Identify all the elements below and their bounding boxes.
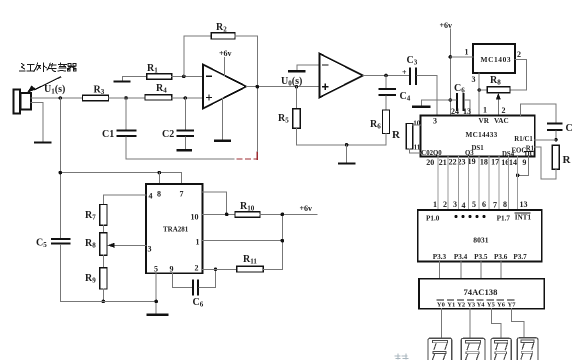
svg-text:VR: VR	[479, 117, 490, 125]
svg-text:P1.7: P1.7	[497, 215, 511, 223]
svg-text:Y5: Y5	[487, 301, 496, 308]
node at - input	[182, 75, 186, 79]
svg-text:8031: 8031	[473, 235, 488, 244]
svg-text:2: 2	[195, 264, 199, 273]
op-amp U2	[319, 54, 363, 98]
wire R3 to node A	[109, 97, 146, 99]
bottom rail wire	[60, 300, 156, 302]
wiper arrow from pin 3	[112, 244, 146, 246]
bottom wire R5 to R6	[297, 144, 387, 146]
wire R1 to opamp -	[172, 75, 203, 77]
infrared sensor body	[14, 90, 21, 114]
svg-text:21: 21	[439, 158, 447, 167]
svg-text:+: +	[402, 68, 407, 77]
svg-text:R: R	[563, 154, 572, 166]
svg-text:18: 18	[480, 157, 488, 166]
bias bar at R1 left	[123, 76, 148, 80]
left rail wire down	[59, 98, 61, 238]
bias bar (analog ground)	[421, 100, 423, 106]
op-amp U1	[203, 65, 246, 109]
faint watermark text	[395, 354, 408, 359]
svg-text:P3.6: P3.6	[494, 253, 508, 261]
svg-text:6: 6	[482, 200, 486, 209]
decoder 74AC138	[419, 279, 544, 309]
ground bar under C2	[178, 149, 192, 151]
svg-text:Y6: Y6	[497, 301, 506, 308]
wire sensor to R3	[31, 97, 83, 99]
wire R2 to output	[235, 36, 257, 87]
output node 2	[384, 74, 388, 78]
wire opamp1 output to opamp2 +	[246, 86, 319, 88]
bus wires MC14433 to 8031	[438, 156, 517, 210]
wire pin 4 from R7 top	[103, 195, 146, 205]
loop wire top right of TRA281	[203, 192, 227, 214]
clock pin wire to C	[520, 104, 556, 123]
display DS2	[461, 338, 485, 360]
svg-text:R: R	[392, 129, 401, 141]
node at U1	[59, 96, 63, 100]
svg-text:3: 3	[453, 200, 457, 209]
svg-text:C: C	[566, 123, 573, 134]
wire pin 2 to R11	[203, 268, 237, 270]
svg-text:17: 17	[491, 158, 499, 167]
svg-text:Y7: Y7	[508, 301, 517, 308]
svg-text:P1.0: P1.0	[426, 214, 440, 222]
wire Y3 to display 2	[469, 309, 471, 339]
label 红外传感器 (infrared sensor, drawn strokes)	[20, 63, 77, 72]
R1/C1 pin wire	[535, 139, 557, 141]
svg-text:14: 14	[509, 158, 517, 167]
pin 1 wire MC1403	[450, 56, 473, 58]
svg-text:5: 5	[472, 200, 476, 209]
svg-text:3: 3	[472, 75, 476, 84]
wire R10 to +6v	[260, 213, 317, 215]
wire R11 to +6v rail	[263, 214, 282, 269]
svg-text:1: 1	[433, 200, 437, 209]
svg-text:1: 1	[196, 238, 200, 247]
svg-text:8: 8	[503, 200, 507, 209]
bias bar at opamp2 - input	[297, 65, 319, 70]
output node	[255, 85, 259, 89]
display DS4	[517, 338, 538, 360]
svg-text:+6v: +6v	[219, 49, 232, 58]
svg-text:Y2: Y2	[457, 301, 465, 308]
svg-text:10: 10	[191, 213, 199, 222]
svg-text:16: 16	[501, 158, 509, 167]
wire pin 10	[203, 213, 235, 215]
svg-text:11: 11	[414, 144, 421, 152]
svg-text:Y0: Y0	[437, 301, 445, 308]
svg-text:4: 4	[149, 192, 153, 201]
svg-text:MC1403: MC1403	[481, 55, 512, 64]
svg-text:INT1: INT1	[515, 213, 532, 221]
svg-text:+6v: +6v	[300, 204, 313, 213]
svg-text:P3.4: P3.4	[454, 253, 468, 261]
microcontroller 8031	[418, 210, 542, 262]
wire pin 8	[158, 173, 160, 184]
wire Y0 to display 1	[441, 309, 443, 338]
svg-text:U0(s): U0(s)	[281, 76, 302, 88]
svg-text:C02Q0: C02Q0	[421, 150, 442, 157]
svg-text:TRA281: TRA281	[163, 226, 189, 234]
wire Y5 to display 3	[491, 309, 501, 338]
wire opamp2 output	[363, 75, 410, 77]
wire C3 to pin3 of MC14433	[417, 76, 437, 116]
DU wire loop to EOC line	[518, 156, 529, 175]
svg-text:3: 3	[433, 117, 437, 126]
ground bar under sensor	[35, 142, 51, 144]
wire pin 5 to ground	[155, 273, 157, 314]
svg-text:Y1: Y1	[447, 301, 455, 308]
svg-text:9: 9	[522, 158, 526, 167]
svg-text:C2: C2	[162, 129, 174, 140]
ground under opamp2	[346, 145, 348, 163]
node A	[124, 96, 128, 100]
svg-text:2: 2	[443, 200, 447, 209]
svg-text:7: 7	[493, 201, 497, 210]
wiper arrow to VAC	[497, 97, 499, 115]
svg-text:20: 20	[426, 158, 434, 167]
svg-text:P3.3: P3.3	[433, 253, 447, 261]
feedback vertical to output node	[256, 87, 258, 152]
red watermark dashes on feedback wire	[237, 158, 257, 160]
wire pin 9 to C6	[172, 273, 192, 287]
MC1403 U3	[473, 44, 515, 73]
node B	[184, 96, 188, 100]
svg-text:7: 7	[180, 190, 184, 199]
svg-text:VAC: VAC	[494, 117, 509, 125]
wire bias bar to C6 and pin13	[422, 99, 456, 101]
ic TRA281	[146, 184, 203, 273]
svg-text:1: 1	[465, 48, 469, 57]
svg-text:8: 8	[157, 190, 161, 199]
svg-text:4: 4	[462, 201, 466, 210]
wire R7-R8	[102, 225, 104, 233]
svg-text:Y3: Y3	[467, 301, 476, 308]
wire R9 to bottom rail	[102, 289, 104, 301]
svg-text:9: 9	[170, 265, 174, 274]
svg-text:Y4: Y4	[477, 301, 486, 308]
wires 8031 to 74AC138	[440, 262, 501, 279]
arrow from label to sensor	[35, 77, 61, 90]
svg-text:P3.7: P3.7	[513, 253, 527, 261]
MC14433 bottom pin numbers	[426, 157, 526, 167]
display DS3	[491, 338, 511, 360]
svg-text:3: 3	[148, 245, 152, 254]
svg-text:2: 2	[517, 50, 521, 59]
svg-text:5: 5	[154, 265, 158, 274]
node at U0	[295, 85, 299, 89]
ground bar under pin 5	[148, 314, 168, 316]
pin 2 wire MC1403	[510, 59, 527, 90]
svg-text:U1(s): U1(s)	[44, 84, 65, 96]
svg-text:R1/C1: R1/C1	[514, 136, 533, 143]
wire pin 1	[203, 240, 283, 242]
pin 3 wire MC1403 to VR	[478, 73, 480, 115]
feedback wire up to R2	[184, 36, 212, 77]
svg-text:1: 1	[483, 105, 487, 114]
svg-text:22: 22	[449, 157, 457, 166]
svg-text:13: 13	[520, 200, 528, 209]
R bottom loop to R1 pin	[535, 147, 556, 179]
sensor ground stub	[31, 102, 43, 142]
display DS1	[428, 338, 452, 360]
wire left rail to TRA281 top pins	[60, 172, 181, 174]
wire Y7 to display 4	[512, 309, 525, 339]
wire R4 to opamp +	[172, 97, 203, 99]
feedback bottom wire	[126, 158, 234, 160]
svg-text:P3.5: P3.5	[474, 253, 488, 261]
8031 top pin numbers	[433, 200, 528, 210]
svg-text:2: 2	[502, 106, 506, 115]
wire R8-R9	[102, 255, 104, 268]
svg-text:C1: C1	[102, 129, 114, 140]
wire pin 7	[181, 173, 183, 184]
ground mid node	[345, 143, 349, 147]
red wire segment (vertical)	[256, 152, 258, 159]
svg-text:10: 10	[413, 119, 421, 127]
ground under op-amp U1	[222, 98, 224, 140]
svg-text:MC14433: MC14433	[466, 131, 498, 139]
a/d converter MC14433	[421, 115, 535, 156]
svg-text:74AC138: 74AC138	[464, 287, 499, 297]
